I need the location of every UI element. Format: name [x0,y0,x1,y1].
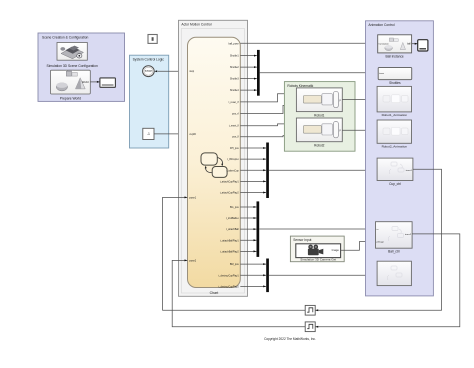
mux1 (shuttles) [257,50,260,96]
wire Ball_ctrl -> rate transition 2 [315,234,459,328]
panel Robots Kinematik [284,82,355,152]
state 2 [212,167,227,178]
svg-text:pose2: pose2 [189,259,196,262]
svg-text:t_attachBallPlay1: t_attachBallPlay1 [220,239,239,242]
block Robot2 [296,118,342,148]
wire camera Image -> Ball_ctrl pImage [341,241,376,251]
wire Robot1 -> Robot1_Animation [342,99,377,101]
svg-text:t_attachBallPlay2: t_attachBallPlay2 [220,250,239,253]
chart right port labels [218,42,239,288]
svg-text:t_destroyCupPlay2: t_destroyCupPlay2 [218,285,239,288]
wire pos_rf -> Robot1 in2 [240,104,296,113]
constant block cupID [143,128,154,139]
wire rate1 -> chart pose1 [163,196,306,310]
wires -> mux2 [240,147,266,193]
panel System Control Logic [130,55,169,148]
svg-text:Shuttle3: Shuttle3 [230,78,239,81]
wire constant -> chart cupID [154,133,188,135]
svg-text:BG_pos: BG_pos [230,206,239,209]
video viewer block [418,40,428,51]
svg-text:Simulation 3D Scene Configurat: Simulation 3D Scene Configuration [47,64,98,68]
svg-text:t_destroyCupPlay1: t_destroyCupPlay1 [218,274,239,277]
wire mux4 -> status block [269,274,377,276]
wire Prepare World -> Display [90,81,100,83]
wires -> mux3 [240,206,256,252]
svg-text:ball: ball [407,44,411,46]
svg-text:trans1: trans1 [406,169,413,172]
stateflow chart block [188,37,241,295]
wire Ball Instance -> viewer [412,43,418,45]
rate transition 1 [305,305,315,315]
svg-text:t_takenCup: t_takenCup [226,169,239,172]
block Cup_ctrl [377,158,413,186]
mux4 [266,259,269,293]
block Shuttles [378,68,412,86]
svg-text:Cup_ctrl: Cup_ctrl [389,182,401,186]
svg-text:Ball Instance: Ball Instance [385,54,403,58]
wire ball_pose -> Ball Instance [240,42,377,44]
svg-text:Shuttle1: Shuttle1 [230,55,239,58]
panel Scene Creation & Configuration [38,33,125,101]
svg-text:t_attachBall: t_attachBall [226,228,239,231]
block Robot1 [296,88,342,118]
block Ball Instance [378,35,412,59]
svg-text:Robot1: Robot1 [314,113,325,117]
svg-text:pose1: pose1 [189,196,196,199]
wires Shuttle1-4 -> mux1 [240,55,257,92]
chart left port labels [189,70,196,262]
transition arrows [205,158,224,173]
svg-text:Robot2_Animation: Robot2_Animation [382,145,408,149]
wire Robot2 -> Robot2_Animation [342,129,377,131]
block status (bottom) [377,261,411,285]
svg-text:-1: -1 [147,132,150,136]
svg-text:System Control Logic: System Control Logic [133,57,165,61]
wire chart stop -> STOP block [154,70,187,72]
svg-text:stop: stop [189,70,194,73]
block Ball_ctrl [376,222,413,254]
svg-text:t_attachCupPlay1: t_attachCupPlay1 [219,180,239,183]
svg-text:Scene Creation & Configuration: Scene Creation & Configuration [42,36,89,40]
wire Cup_ctrl -> rate transition 1 [315,169,441,311]
block Robot2_Animation [377,120,411,149]
svg-text:t_liftCupLo: t_liftCupLo [227,158,239,161]
svg-text:Sensor Input: Sensor Input [293,238,311,242]
svg-text:RH_pos: RH_pos [230,147,239,150]
wire pos_lf -> Robot2 in2 [240,135,296,137]
svg-text:t_attachCupPlay2: t_attachCupPlay2 [219,191,239,194]
svg-text:Robot2: Robot2 [314,144,325,148]
svg-text:Copyright 2022 The MathWorks,: Copyright 2022 The MathWorks, Inc. [264,337,316,341]
small info block [148,35,157,44]
wire t_reset_lf -> Robot2 in1 [240,123,296,126]
STOP block (Stop Simulation) [143,66,155,77]
block Prepare World [51,70,91,101]
svg-text:Shuttles: Shuttles [389,81,401,85]
svg-text:t_reset_rf: t_reset_rf [228,101,239,104]
svg-text:t_2ndBallLo: t_2ndBallLo [226,217,240,220]
svg-text:Shuttle2: Shuttle2 [230,66,239,69]
svg-text:World: World [82,80,89,84]
svg-text:Animation Control: Animation Control [368,23,394,27]
state 1 [201,153,217,165]
panel Sensor Input [290,236,344,262]
svg-text:Shuttle4: Shuttle4 [230,89,239,92]
svg-text:Image: Image [332,248,340,252]
svg-text:BM_pos: BM_pos [230,263,240,266]
svg-text:STOP: STOP [145,69,152,73]
svg-text:pos_lf: pos_lf [232,136,239,139]
block Simulation 3D Scene Configuration [47,43,98,68]
svg-text:Chart: Chart [210,291,219,295]
block Robot1_Animation [377,86,411,117]
wire t_reset_rf -> Robot1 in1 [240,93,296,102]
wires -> mux4 [240,263,266,287]
svg-text:pos_rf: pos_rf [232,113,239,116]
svg-text:trans2: trans2 [405,233,412,236]
svg-text:Ball_ctrl: Ball_ctrl [388,249,400,253]
svg-text:t_reset_lf: t_reset_lf [229,125,240,128]
svg-text:Simulation 3D Camera Get: Simulation 3D Camera Get [300,257,336,261]
svg-text:Robot1_Animation: Robot1_Animation [382,113,408,117]
wire mux3 -> Ball_ctrl in [259,228,375,230]
mux2 [266,143,269,199]
svg-text:Actor Motion Control: Actor Motion Control [181,23,211,27]
panel Actor Motion Control [179,20,248,296]
panel Animation Control [366,21,434,296]
svg-text:Robots Kinematik: Robots Kinematik [287,84,313,88]
rate transition 2 [305,322,315,332]
svg-text:Prepare World: Prepare World [60,97,81,101]
mux3 [257,201,260,257]
svg-text:pImage: pImage [377,242,385,244]
wire mux2 -> Cup_ctrl [269,169,377,171]
svg-text:cupID: cupID [189,133,196,136]
svg-text:ball_pose: ball_pose [228,42,239,45]
display block (World) [100,78,116,87]
wire mux1 -> Shuttles block [260,72,379,74]
svg-text:translation: translation [379,43,390,46]
wire rate2 -> chart pose2 [172,259,305,326]
block Simulation 3D Camera Get [296,244,341,261]
